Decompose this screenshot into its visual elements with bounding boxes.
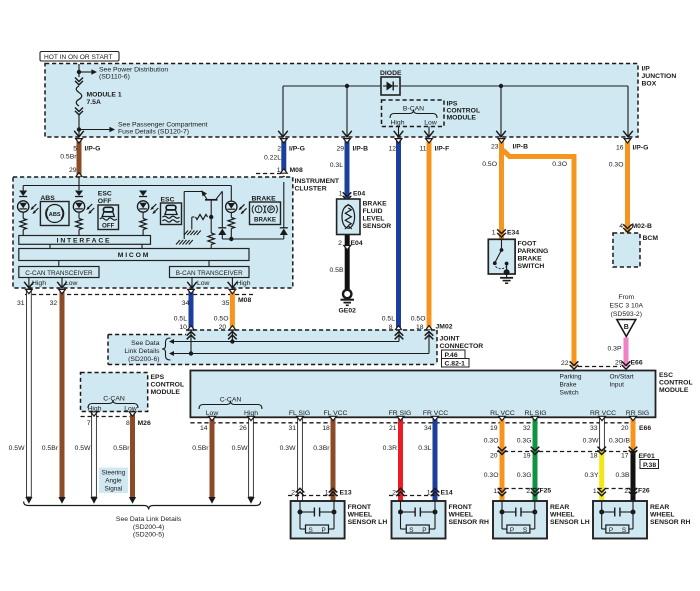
- front wheel sensor RH E14: [392, 501, 490, 539]
- svg-text:EF01: EF01: [639, 453, 655, 460]
- EPS control module: [81, 373, 148, 412]
- wire: interface to micom stubs: [50, 244, 142, 248]
- svg-text:(SD200-4): (SD200-4): [133, 524, 164, 531]
- svg-text:BRAKE: BRAKE: [363, 201, 388, 208]
- LED ESC OFF warning lamp: [73, 191, 94, 236]
- svg-text:CLUSTER: CLUSTER: [295, 186, 327, 193]
- svg-text:M26: M26: [138, 420, 151, 427]
- svg-text:High: High: [32, 280, 46, 287]
- wire 0.3L I/P-B pin 29 to brake fluid level sensor: [330, 139, 368, 201]
- svg-text:FLUID: FLUID: [363, 208, 383, 215]
- svg-text:I/P-G: I/P-G: [85, 146, 101, 153]
- label INSTRUMENT CLUSTER: [295, 178, 340, 193]
- svg-text:34: 34: [424, 425, 432, 432]
- wire 0.5B E04 pin 2 to ground GE02: [330, 235, 363, 290]
- IPS control module: [382, 100, 445, 127]
- ABS indicator icon: [40, 195, 69, 226]
- svg-text:Input: Input: [610, 382, 625, 389]
- wire: cathode rail to M08 pin 1 riser: [222, 238, 283, 240]
- source arrow B From ESC 3 10A (SD593-2): [609, 294, 643, 337]
- svg-text:1: 1: [493, 488, 497, 495]
- wire: B-CAN Low out: [187, 278, 209, 288]
- HOT IN ON OR START tag: [40, 52, 119, 62]
- wire: cluster lamp supply bus: [23, 177, 231, 190]
- label JOINT CONNECTOR: [440, 336, 484, 351]
- svg-text:0.5O: 0.5O: [411, 316, 426, 323]
- connector F26: [598, 488, 650, 495]
- wire 0.5O B-CAN Low pin 11 (I/P-F) to JM02 pin 18: [411, 139, 449, 332]
- wire 0.3G RL SIG pin 32 to EF01 pin 19: [517, 416, 539, 451]
- svg-text:0.3P: 0.3P: [608, 346, 622, 353]
- svg-text:OFF: OFF: [102, 223, 115, 230]
- svg-text:ESC: ESC: [98, 191, 112, 198]
- svg-text:BRAKE: BRAKE: [518, 256, 543, 263]
- wire: IPS B-CAN Low to pin 11: [424, 127, 434, 137]
- wire 0.3W FL SIG pin 31 to E13 pin 2: [280, 416, 305, 501]
- reference C.82-1: [442, 359, 470, 368]
- label IPS CONTROL MODULE: [447, 101, 481, 122]
- wire: JM02 pin 20 stub: [228, 330, 237, 344]
- svg-text:(SD200-5): (SD200-5): [133, 532, 164, 539]
- ESC OFF indicator icon: [98, 191, 119, 230]
- see data link details (SD200-4)(SD200-5) bracket: [24, 497, 261, 539]
- connector M08 (bottom): [25, 295, 253, 305]
- svg-text:0.3W: 0.3W: [583, 438, 599, 445]
- wire 0.5Br EPS C-CAN Low pin 8: [113, 412, 136, 497]
- svg-text:ESC 3 10A: ESC 3 10A: [609, 303, 643, 310]
- node: brake LED cathode junction: [229, 237, 233, 241]
- rear wheel sensor RH F26: [593, 501, 691, 539]
- svg-text:FOOT: FOOT: [518, 241, 538, 248]
- svg-text:See Data Link Details: See Data Link Details: [116, 516, 182, 523]
- svg-text:0.3B: 0.3B: [616, 472, 630, 479]
- svg-text:SENSOR LH: SENSOR LH: [348, 519, 388, 526]
- LED BRAKE warning lamp: [226, 186, 247, 240]
- svg-text:LEVEL: LEVEL: [363, 216, 385, 223]
- ground GE02: [339, 290, 357, 315]
- svg-text:1: 1: [492, 230, 496, 237]
- svg-text:14: 14: [200, 425, 208, 432]
- svg-text:0.3O: 0.3O: [484, 472, 499, 479]
- connector EF01: [497, 452, 655, 461]
- svg-text:B: B: [624, 324, 629, 331]
- svg-text:18: 18: [322, 425, 330, 432]
- svg-text:I/P-B: I/P-B: [353, 146, 369, 153]
- svg-text:C.82-1: C.82-1: [445, 361, 466, 368]
- connector E14: [389, 490, 453, 497]
- svg-text:B-CAN TRANSCEIVER: B-CAN TRANSCEIVER: [176, 270, 243, 277]
- svg-text:HOT IN ON OR START: HOT IN ON OR START: [44, 54, 113, 61]
- wire: B-CAN High out: [228, 278, 251, 288]
- foot parking brake switch E34: [488, 239, 515, 275]
- svg-text:0.5L: 0.5L: [174, 316, 187, 323]
- wire: C-CAN High out: [24, 278, 46, 288]
- wire 0.5Br C-CAN Low cluster pin 32: [42, 289, 66, 497]
- svg-text:CONTROL: CONTROL: [447, 108, 481, 115]
- joint connector JM02: [108, 324, 453, 365]
- label On/Start Input: [610, 374, 634, 389]
- ESC control module: [190, 371, 655, 418]
- svg-text:From: From: [618, 294, 634, 301]
- MICOM block: [19, 249, 249, 261]
- svg-text:F25: F25: [540, 488, 552, 495]
- svg-text:SENSOR: SENSOR: [363, 223, 392, 230]
- svg-text:OFF: OFF: [98, 198, 112, 205]
- svg-text:12: 12: [388, 146, 396, 153]
- svg-text:C-CAN: C-CAN: [103, 396, 125, 403]
- svg-text:23: 23: [491, 144, 499, 151]
- wire 0.3Br FL VCC pin 18 to E13 pin 1: [313, 416, 337, 501]
- svg-text:10: 10: [179, 324, 187, 331]
- svg-text:P: P: [322, 527, 326, 534]
- svg-text:17: 17: [621, 453, 629, 460]
- svg-text:High: High: [237, 280, 251, 287]
- svg-text:0.5O: 0.5O: [482, 161, 497, 168]
- reference P.38: [640, 460, 659, 470]
- wire: JM02 pin 10 stub: [187, 330, 196, 356]
- svg-text:35: 35: [222, 300, 230, 307]
- svg-text:21: 21: [389, 425, 397, 432]
- wire 0.3Y EF01 pin 18 to F26 pin 1: [585, 447, 606, 501]
- svg-text:0.5L: 0.5L: [382, 316, 395, 323]
- svg-text:WHEEL: WHEEL: [348, 512, 373, 519]
- svg-text:20: 20: [490, 453, 498, 460]
- svg-text:P.46: P.46: [445, 352, 458, 359]
- svg-text:22: 22: [561, 360, 569, 367]
- svg-text:E66: E66: [639, 425, 651, 432]
- svg-text:I/P-G: I/P-G: [289, 146, 305, 153]
- label I/P JUNCTION BOX: [642, 66, 677, 88]
- svg-text:7: 7: [87, 420, 91, 427]
- svg-text:CONNECTOR: CONNECTOR: [440, 343, 484, 350]
- connector dashes at ESC top entries: [578, 366, 621, 368]
- connector F25: [498, 488, 552, 495]
- svg-text:High: High: [391, 120, 405, 127]
- svg-text:0.5W: 0.5W: [232, 445, 248, 452]
- svg-text:0.5W: 0.5W: [9, 445, 25, 452]
- svg-text:P: P: [422, 527, 426, 534]
- svg-text:Switch: Switch: [560, 390, 580, 397]
- svg-text:S: S: [309, 527, 313, 534]
- wire 0.3R FR SIG pin 21 to E14 pin 2: [383, 416, 405, 501]
- svg-text:0.3G: 0.3G: [517, 472, 532, 479]
- svg-text:REAR: REAR: [550, 504, 569, 511]
- svg-text:0.3W: 0.3W: [280, 445, 296, 452]
- connector E13: [288, 490, 352, 497]
- svg-text:!: !: [258, 208, 260, 214]
- svg-text:20: 20: [621, 425, 629, 432]
- svg-text:INTERFACE: INTERFACE: [57, 238, 112, 245]
- svg-text:19: 19: [490, 425, 498, 432]
- transistor Q1 brake lamp driver: [184, 190, 222, 227]
- svg-text:0.5Br: 0.5Br: [113, 445, 130, 452]
- svg-text:0.5W: 0.5W: [75, 445, 91, 452]
- svg-text:MODULE 1: MODULE 1: [87, 92, 122, 99]
- svg-text:BCM: BCM: [643, 235, 659, 242]
- BRAKE indicator icon: [250, 196, 281, 225]
- svg-text:Brake: Brake: [560, 382, 577, 389]
- svg-text:E04: E04: [353, 191, 365, 198]
- wire 0.3P on/start input to ESC pin 29 E66: [608, 338, 643, 370]
- wire 0.3L FR VCC pin 34 to E14 pin 1: [418, 416, 439, 501]
- svg-text:P: P: [609, 527, 613, 534]
- svg-text:M08: M08: [238, 297, 251, 304]
- svg-text:ABS: ABS: [49, 212, 61, 218]
- svg-text:19: 19: [523, 453, 531, 460]
- svg-text:0.5Br: 0.5Br: [42, 445, 59, 452]
- BCM module M02-B: [613, 233, 658, 267]
- svg-text:Fuse Details (SD120-7): Fuse Details (SD120-7): [118, 129, 189, 136]
- wire: micom to transceiver stubs: [59, 261, 209, 267]
- svg-text:See Power Distribution: See Power Distribution: [99, 67, 168, 74]
- svg-text:0.3G: 0.3G: [517, 438, 532, 445]
- label EPS CONTROL MODULE: [151, 374, 185, 396]
- reference P.46: [442, 350, 466, 359]
- arrow See Passenger Compartment Fuse Details (SD120-7): [81, 122, 208, 136]
- svg-text:F26: F26: [638, 488, 650, 495]
- svg-text:2: 2: [338, 240, 342, 247]
- svg-text:8: 8: [126, 420, 130, 427]
- svg-text:P.38: P.38: [643, 462, 656, 469]
- svg-text:S: S: [409, 527, 413, 534]
- svg-text:0.3R: 0.3R: [383, 445, 397, 452]
- svg-text:CONTROL: CONTROL: [151, 382, 185, 389]
- node on bus at I/P-B 23 drop: [499, 84, 503, 88]
- I/P junction box: [45, 64, 638, 138]
- svg-text:0.3O: 0.3O: [609, 162, 624, 169]
- wire 0.5Br I/P-G pin 5: [60, 139, 100, 188]
- svg-text:16: 16: [616, 145, 624, 152]
- svg-text:Parking: Parking: [560, 374, 582, 381]
- svg-text:WHEEL: WHEEL: [650, 512, 675, 519]
- svg-text:29: 29: [336, 146, 344, 153]
- svg-text:34: 34: [182, 300, 190, 307]
- svg-text:S: S: [622, 527, 626, 534]
- svg-text:IPS: IPS: [447, 101, 458, 108]
- node: fuse top junction: [77, 70, 81, 74]
- label BRAKE FLUID LEVEL SENSOR: [363, 201, 392, 231]
- connector M26: [81, 417, 151, 428]
- svg-text:0.5Br: 0.5Br: [192, 445, 209, 452]
- svg-text:1: 1: [593, 488, 597, 495]
- arrow See Power Distribution (SD110-6): [81, 67, 168, 81]
- net C-CAN (ESC): [199, 397, 262, 418]
- LED ABS warning lamp: [18, 186, 39, 236]
- wire 0.5Br ESC C-CAN Low pin 14: [192, 416, 215, 497]
- svg-text:2: 2: [277, 146, 281, 153]
- svg-text:0.5Br: 0.5Br: [60, 154, 77, 161]
- junction box exit arrows: [74, 131, 633, 137]
- svg-text:REAR: REAR: [650, 504, 669, 511]
- svg-text:Steering: Steering: [101, 470, 125, 477]
- resistor R base: [192, 214, 208, 229]
- wire: junction box internal bus: [283, 86, 628, 137]
- wire 0.3O/B RR SIG pin 20 to EF01 pin 17: [609, 416, 637, 451]
- svg-text:0.3Y: 0.3Y: [585, 472, 599, 479]
- connector M08 (top): [256, 174, 288, 186]
- svg-text:29: 29: [69, 167, 77, 174]
- brake fluid level sensor E04: [337, 199, 360, 235]
- svg-text:MODULE: MODULE: [151, 389, 181, 396]
- svg-text:JOINT: JOINT: [440, 336, 461, 343]
- wire 0.3O EF01 pin 20 to F25 pin 1: [484, 447, 507, 501]
- ground (foot parking brake switch): [500, 272, 513, 283]
- svg-text:Low: Low: [424, 120, 437, 127]
- svg-text:0.22L: 0.22L: [264, 155, 281, 162]
- svg-text:I/P-G: I/P-G: [633, 145, 649, 152]
- C-CAN TRANSCEIVER block: [19, 267, 99, 278]
- wire 0.5W ESC C-CAN High pin 26: [232, 416, 255, 497]
- svg-text:Low: Low: [65, 280, 78, 287]
- diode D3 (to I/P-G feed): [280, 182, 288, 239]
- label Parking Brake Switch: [560, 374, 582, 397]
- svg-text:5: 5: [73, 146, 77, 153]
- svg-text:GE02: GE02: [339, 308, 357, 315]
- wire: B-CAN Low internal link (JM02 pin 10 to pin 18): [169, 331, 433, 357]
- label FOOT PARKING BRAKE SWITCH: [518, 241, 549, 271]
- ground (base resistor): [184, 231, 201, 236]
- svg-text:SENSOR RH: SENSOR RH: [449, 519, 490, 526]
- svg-text:E66: E66: [631, 360, 643, 367]
- svg-text:11: 11: [419, 146, 426, 153]
- pin labels FL/FR/RL/RR: [289, 410, 649, 417]
- svg-text:18: 18: [590, 453, 598, 460]
- svg-text:M08: M08: [290, 167, 303, 174]
- svg-text:Angle: Angle: [105, 478, 122, 485]
- node: transistor base junction: [209, 215, 213, 219]
- svg-text:JUNCTION: JUNCTION: [642, 73, 677, 80]
- svg-text:WHEEL: WHEEL: [550, 512, 575, 519]
- svg-text:29: 29: [615, 360, 623, 367]
- svg-text:0.3O: 0.3O: [484, 438, 499, 445]
- node on bus at I/P-B drop: [345, 84, 349, 88]
- svg-text:See Passenger Compartment: See Passenger Compartment: [118, 122, 208, 129]
- svg-text:32: 32: [50, 300, 58, 307]
- svg-text:I/P-B: I/P-B: [513, 144, 529, 151]
- B-CAN TRANSCEIVER block: [170, 267, 250, 278]
- svg-text:EPS: EPS: [151, 374, 165, 381]
- diode D1: [380, 70, 402, 95]
- svg-text:ABS: ABS: [40, 195, 55, 202]
- instrument cluster: [13, 177, 293, 288]
- svg-text:See Data: See Data: [131, 340, 160, 347]
- svg-text:0.3O/B: 0.3O/B: [609, 438, 631, 445]
- svg-text:JM02: JM02: [436, 324, 453, 331]
- front wheel sensor LH E13: [291, 501, 388, 539]
- ESC indicator icon: [161, 197, 182, 225]
- svg-text:SENSOR RH: SENSOR RH: [650, 519, 691, 526]
- svg-text:WHEEL: WHEEL: [449, 512, 474, 519]
- wire 0.3O RL VCC pin 19 to EF01 pin 20: [484, 416, 506, 451]
- wire 0.5L B-CAN High pin 12 to JM02 pin 8: [382, 139, 402, 332]
- svg-text:33: 33: [590, 425, 598, 432]
- svg-text:E04: E04: [351, 240, 363, 247]
- svg-text:20: 20: [219, 324, 227, 331]
- label ESC CONTROL MODULE: [659, 372, 693, 394]
- svg-text:I/P: I/P: [642, 66, 651, 73]
- svg-text:0.3L: 0.3L: [418, 445, 431, 452]
- wire 0.3W RR VCC pin 33 to EF01 pin 18: [583, 416, 606, 451]
- svg-text:1: 1: [339, 191, 343, 198]
- note steering angle signal: [99, 468, 128, 494]
- net C-CAN (EPS): [88, 396, 138, 413]
- wire 0.3B EF01 pin 17 to F26 pin 2: [616, 447, 638, 501]
- svg-text:CONTROL: CONTROL: [659, 380, 693, 387]
- wire 0.5O I/P-B pin 23 to foot parking brake switch E34: [482, 139, 528, 239]
- wire 0.3G EF01 pin 19 to F25 pin 2: [517, 447, 540, 501]
- svg-text:26: 26: [239, 425, 247, 432]
- wire 0.3O I/P-G pin 16 to BCM M02-B pin 4: [609, 139, 652, 233]
- svg-text:BRAKE: BRAKE: [252, 196, 277, 203]
- svg-text:M02-B: M02-B: [632, 223, 652, 230]
- fuse MODULE 1 7.5A: [75, 64, 122, 137]
- svg-text:INSTRUMENT: INSTRUMENT: [295, 178, 340, 185]
- svg-text:DIODE: DIODE: [380, 70, 402, 77]
- svg-text:Low: Low: [197, 280, 210, 287]
- wire 0.5O B-CAN High cluster pin 35 to JM02 pin 20: [214, 289, 236, 331]
- see data link details (SD200-6): [124, 338, 170, 363]
- wire 0.22L I/P-G pin 2 to M08 pin 1: [264, 139, 305, 175]
- svg-text:E13: E13: [340, 490, 352, 497]
- diode D2 (brake lamp): [218, 228, 226, 239]
- svg-text:31: 31: [17, 300, 25, 307]
- connector E66: [190, 423, 651, 432]
- INTERFACE block: [19, 236, 151, 245]
- svg-text:FRONT: FRONT: [348, 504, 372, 511]
- svg-text:E14: E14: [441, 490, 453, 497]
- svg-text:BOX: BOX: [642, 81, 657, 88]
- svg-text:7.5A: 7.5A: [87, 99, 101, 106]
- LED ESC warning lamp: [137, 191, 158, 236]
- svg-text:C-CAN TRANSCEIVER: C-CAN TRANSCEIVER: [25, 270, 93, 277]
- svg-text:SWITCH: SWITCH: [518, 263, 545, 270]
- svg-text:ESC: ESC: [659, 372, 673, 379]
- resistor R collector pulldown to MICOM: [208, 217, 215, 249]
- svg-text:P: P: [510, 527, 514, 534]
- wire: IPS B-CAN High to pin 12: [394, 127, 404, 137]
- net B-CAN (IPS): [390, 106, 437, 127]
- svg-text:Link Details: Link Details: [124, 348, 160, 355]
- svg-text:FRONT: FRONT: [449, 504, 473, 511]
- wire 0.3O branch to ESC pin 22 parking brake switch: [503, 150, 578, 369]
- wire 0.5W EPS C-CAN High pin 7: [75, 412, 98, 497]
- rear wheel sensor LH F25: [493, 501, 590, 539]
- node: fuse bottom junction: [77, 127, 81, 131]
- svg-text:4: 4: [619, 223, 623, 230]
- svg-text:Signal: Signal: [105, 486, 123, 493]
- svg-text:BRAKE: BRAKE: [254, 217, 276, 224]
- svg-text:32: 32: [523, 425, 531, 432]
- svg-text:0.3L: 0.3L: [330, 162, 343, 169]
- svg-text:PARKING: PARKING: [518, 248, 549, 255]
- svg-text:(SD110-6): (SD110-6): [99, 74, 130, 81]
- svg-text:I/P-F: I/P-F: [435, 146, 450, 153]
- svg-text:(SD593-2): (SD593-2): [611, 311, 642, 318]
- svg-text:(SD200-6): (SD200-6): [128, 356, 159, 363]
- svg-text:0.3O: 0.3O: [552, 161, 567, 168]
- svg-text:0.5B: 0.5B: [330, 267, 344, 274]
- wire: C-CAN Low out: [57, 278, 77, 288]
- wire 0.5W C-CAN High cluster pin 31: [9, 289, 33, 497]
- svg-text:ESC: ESC: [161, 197, 175, 204]
- svg-text:MODULE: MODULE: [659, 387, 689, 394]
- svg-text:S: S: [523, 527, 527, 534]
- svg-text:SENSOR LH: SENSOR LH: [550, 519, 590, 526]
- wire: B-CAN High internal link (JM02 pin 20 to pin 8): [169, 331, 403, 345]
- wire: emitter to chassis ground: [183, 192, 185, 240]
- svg-text:MICOM: MICOM: [118, 252, 150, 259]
- svg-text:E34: E34: [507, 230, 519, 237]
